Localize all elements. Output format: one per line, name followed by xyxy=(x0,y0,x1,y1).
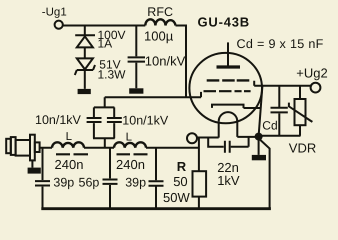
wire cap pair bus xyxy=(93,97,115,148)
terminal -Ug1 xyxy=(55,21,63,29)
svg-text:10n/kV: 10n/kV xyxy=(145,53,186,68)
ground (10n/kV cap) xyxy=(129,88,143,93)
inductor L1 240n xyxy=(52,142,84,147)
capacitor 10n/1kV (right) xyxy=(107,107,122,138)
svg-text:VDR: VDR xyxy=(289,140,316,155)
inductor RFC xyxy=(145,19,175,25)
wire g2 lead to rail xyxy=(254,81,311,86)
svg-text:L: L xyxy=(66,131,73,143)
capacitor 56p xyxy=(103,148,118,208)
grid g2 (dashes) xyxy=(207,79,250,81)
capacitor 22n 1kV xyxy=(208,137,248,153)
svg-text:R: R xyxy=(177,159,187,174)
tube GU-43B envelope xyxy=(189,53,262,123)
svg-text:GU-43B: GU-43B xyxy=(198,15,250,30)
terminal RF drive input xyxy=(187,133,197,143)
wire node to bottom rail xyxy=(259,139,270,208)
svg-text:1kV: 1kV xyxy=(217,173,240,188)
capacitor 10n/kV xyxy=(128,26,145,89)
svg-text:240n: 240n xyxy=(116,157,145,172)
zener D2 51V 1.3W xyxy=(75,58,95,75)
inductor L2 240n xyxy=(114,142,146,147)
wire diode column xyxy=(84,26,86,89)
capacitor Cd (screen bypass) xyxy=(271,86,288,136)
svg-text:Cd: Cd xyxy=(262,118,277,132)
ground (diodes) xyxy=(78,89,91,94)
wire bottom rail xyxy=(41,207,271,210)
svg-text:+Ug2: +Ug2 xyxy=(296,65,327,80)
wire right leg to node xyxy=(237,136,256,138)
wire cathode slant to node xyxy=(259,86,263,135)
wire input row xyxy=(40,147,199,149)
svg-text:L: L xyxy=(126,131,133,143)
ground (connector) xyxy=(31,160,33,167)
wire input to cathode xyxy=(197,137,219,139)
capacitor 39p (second) xyxy=(149,148,164,208)
svg-text:RFC: RFC xyxy=(147,5,173,19)
cathode bar xyxy=(212,105,261,108)
wire top rail xyxy=(63,25,186,98)
capacitor 39p (first) xyxy=(35,148,50,208)
svg-text:240n: 240n xyxy=(55,157,84,172)
junction dot cathode/ground node xyxy=(255,133,263,141)
svg-text:39p: 39p xyxy=(125,175,146,189)
wire Cd/VDR ground return xyxy=(259,135,301,137)
anode xyxy=(227,42,229,65)
svg-text:100µ: 100µ xyxy=(144,28,174,43)
svg-text:1A: 1A xyxy=(98,36,113,50)
terminal +Ug2 xyxy=(311,83,321,93)
wire g1 feed xyxy=(105,92,201,97)
svg-text:Cd = 9 x 15 nF: Cd = 9 x 15 nF xyxy=(237,37,324,51)
coax connector J1 xyxy=(6,139,11,153)
svg-text:-Ug1: -Ug1 xyxy=(42,6,67,18)
grid g1 (dashes) xyxy=(204,90,251,92)
svg-text:50: 50 xyxy=(173,174,187,189)
svg-text:39p: 39p xyxy=(53,175,74,189)
resistor R 50 50W xyxy=(198,138,200,208)
heater dome xyxy=(219,112,238,121)
capacitor 10n/1kV (left) xyxy=(87,107,102,138)
svg-text:10n/1kV: 10n/1kV xyxy=(35,113,82,127)
svg-text:50W: 50W xyxy=(163,190,190,205)
wire cathode legs xyxy=(219,120,238,138)
ground (cathode node) xyxy=(258,140,260,155)
svg-text:10n/1kV: 10n/1kV xyxy=(122,113,169,127)
diode D1 100V 1A xyxy=(75,34,95,36)
varistor VDR xyxy=(299,86,301,136)
svg-text:1.3W: 1.3W xyxy=(98,68,127,82)
svg-text:56p: 56p xyxy=(79,175,100,189)
